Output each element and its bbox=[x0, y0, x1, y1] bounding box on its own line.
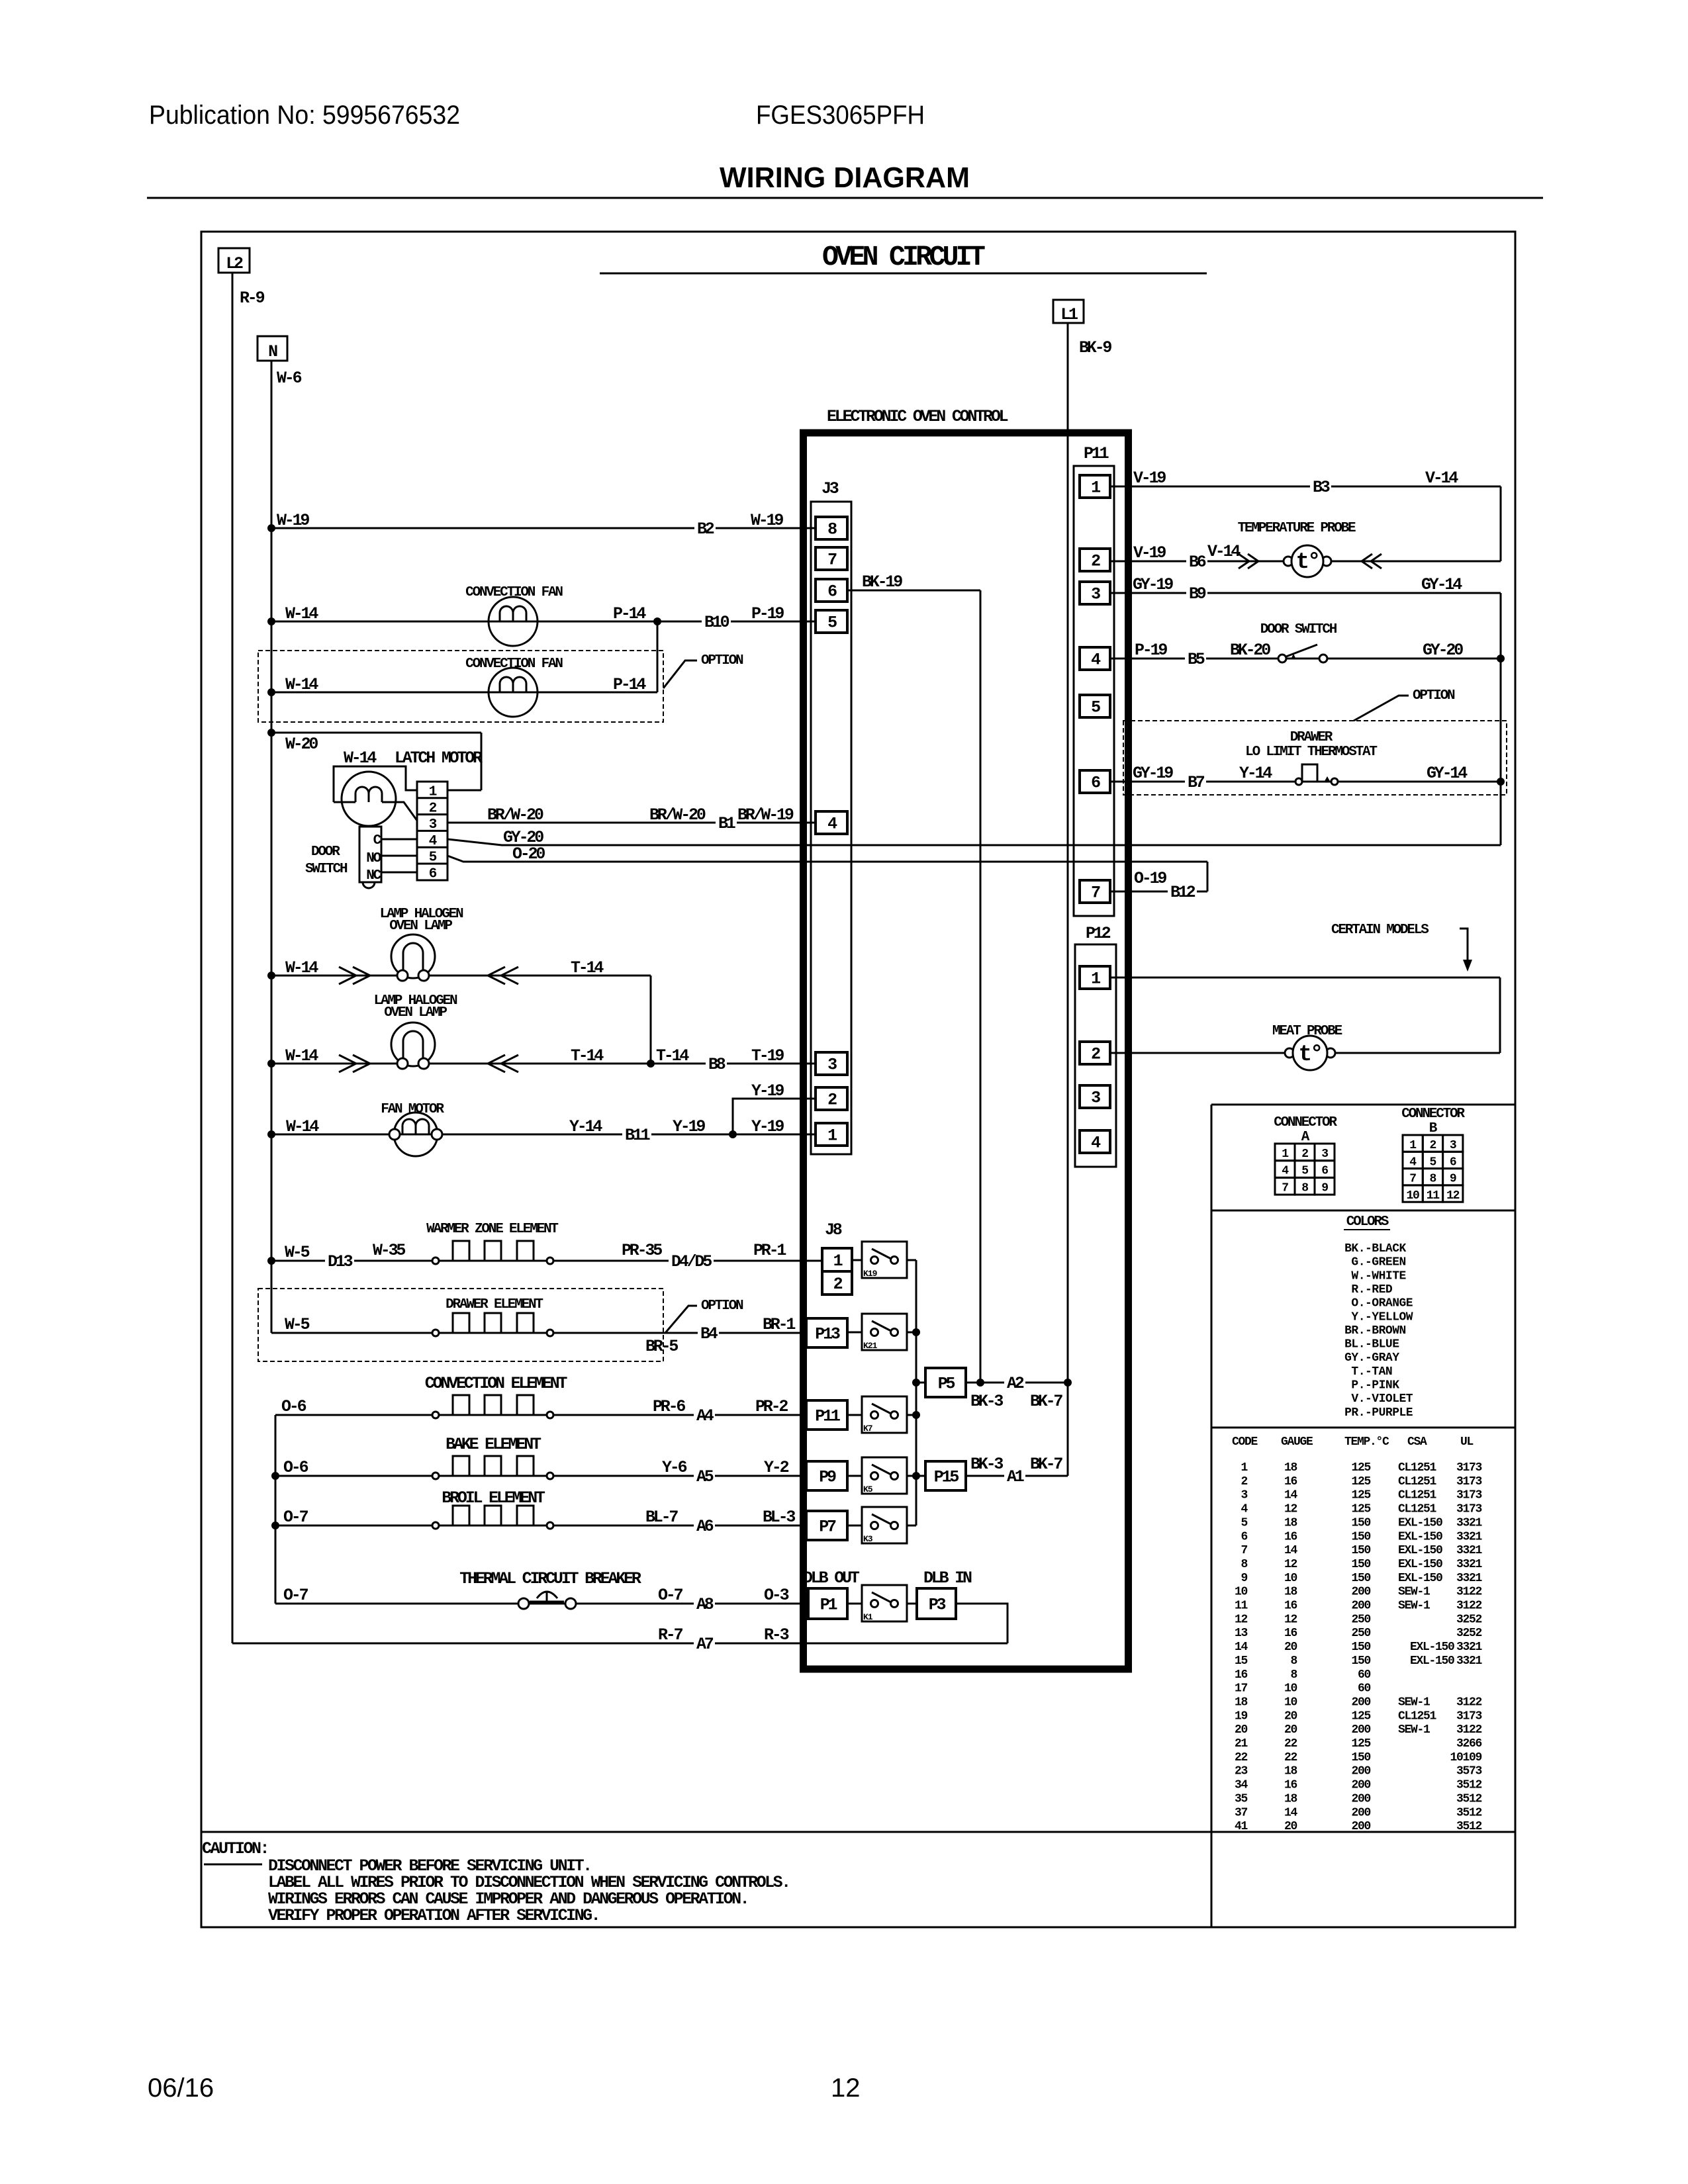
svg-text:t°: t° bbox=[1296, 550, 1319, 575]
svg-text:5: 5 bbox=[1430, 1156, 1436, 1169]
svg-text:G.: G. bbox=[1351, 1256, 1365, 1269]
svg-text:EXL-150: EXL-150 bbox=[1398, 1530, 1442, 1543]
svg-text:P7: P7 bbox=[819, 1518, 836, 1537]
oven lamp DS2 bbox=[391, 1023, 435, 1069]
wire NC to pin6 bbox=[381, 872, 417, 874]
svg-text:23: 23 bbox=[1235, 1765, 1248, 1778]
svg-text:BR/W-19: BR/W-19 bbox=[737, 805, 794, 825]
svg-text:CL1251: CL1251 bbox=[1398, 1503, 1437, 1516]
svg-text:GAUGE: GAUGE bbox=[1281, 1435, 1313, 1449]
drawer element R2 bbox=[432, 1313, 553, 1336]
svg-text:10: 10 bbox=[1406, 1189, 1419, 1203]
connector P5 bbox=[925, 1368, 966, 1397]
connector P12 pin 3 bbox=[1080, 1085, 1110, 1108]
svg-text:5: 5 bbox=[1301, 1165, 1308, 1178]
svg-text:3252: 3252 bbox=[1456, 1627, 1482, 1640]
svg-text:125: 125 bbox=[1351, 1737, 1370, 1751]
svg-text:W-19: W-19 bbox=[277, 511, 309, 530]
wire P9 to K5 bbox=[847, 1475, 862, 1477]
svg-text:D13: D13 bbox=[328, 1252, 353, 1271]
svg-text:125: 125 bbox=[1351, 1475, 1370, 1488]
svg-text:-BROWN: -BROWN bbox=[1365, 1324, 1406, 1338]
svg-text:CONVECTION FAN: CONVECTION FAN bbox=[465, 585, 563, 600]
svg-text:20: 20 bbox=[1235, 1723, 1248, 1737]
meat probe label bbox=[1272, 1024, 1342, 1039]
svg-text:DOOR: DOOR bbox=[311, 844, 340, 860]
document title WIRING DIAGRAM bbox=[720, 161, 970, 194]
svg-text:EXL-150: EXL-150 bbox=[1398, 1516, 1442, 1529]
bake element R4 bbox=[432, 1456, 553, 1479]
node junction K5 x bus bbox=[912, 1472, 920, 1480]
wire P12-1 row bbox=[1109, 978, 1500, 1053]
svg-text:200: 200 bbox=[1351, 1696, 1370, 1709]
connector chevrons probe left bbox=[1239, 554, 1258, 569]
svg-text:P3: P3 bbox=[929, 1596, 946, 1615]
svg-text:6: 6 bbox=[1450, 1156, 1456, 1169]
svg-text:1: 1 bbox=[1282, 1148, 1289, 1161]
svg-text:VERIFY PROPER OPERATION AFTER: VERIFY PROPER OPERATION AFTER SERVICING. bbox=[268, 1906, 599, 1925]
svg-text:-WHITE: -WHITE bbox=[1365, 1269, 1407, 1283]
svg-text:P-19: P-19 bbox=[1135, 641, 1167, 660]
svg-text:125: 125 bbox=[1351, 1709, 1370, 1723]
wire P13 to K21 bbox=[847, 1332, 862, 1334]
wire W-19/B2 row bbox=[271, 511, 816, 539]
title OVEN CIRCUIT bbox=[600, 241, 1207, 273]
relay K21 bbox=[862, 1314, 907, 1351]
svg-text:BR.: BR. bbox=[1344, 1324, 1365, 1338]
wire Y-19 branch to J3-2 bbox=[733, 1081, 816, 1134]
footer page 12 bbox=[831, 2073, 861, 2103]
svg-text:P15: P15 bbox=[934, 1468, 959, 1487]
node L2 bbox=[218, 248, 250, 273]
svg-text:B5: B5 bbox=[1188, 650, 1205, 669]
convection fan M1 bbox=[489, 597, 538, 646]
svg-text:10: 10 bbox=[1284, 1572, 1297, 1585]
thermal circuit breaker CB1 bbox=[518, 1591, 576, 1609]
connector P11 pin 1 bbox=[1080, 475, 1110, 498]
svg-text:3173: 3173 bbox=[1456, 1489, 1482, 1502]
svg-text:3321: 3321 bbox=[1456, 1544, 1483, 1557]
svg-text:WARMER ZONE ELEMENT: WARMER ZONE ELEMENT bbox=[426, 1222, 558, 1237]
svg-text:A1: A1 bbox=[1007, 1467, 1024, 1486]
svg-text:12: 12 bbox=[1446, 1189, 1460, 1203]
wire P11 to K7 bbox=[847, 1414, 862, 1416]
svg-text:37: 37 bbox=[1235, 1806, 1248, 1819]
svg-text:T-14: T-14 bbox=[571, 958, 604, 978]
wire W-14/P-14 option fan row bbox=[271, 621, 657, 694]
node junction L1 x A2 bbox=[1064, 1379, 1072, 1387]
svg-text:Y-19: Y-19 bbox=[751, 1117, 784, 1136]
colors legend title bbox=[1344, 1214, 1390, 1230]
door switch (latch) label bbox=[305, 844, 348, 877]
DLB IN label bbox=[923, 1569, 972, 1588]
svg-text:OVEN CIRCUIT: OVEN CIRCUIT bbox=[822, 241, 985, 273]
svg-text:-GRAY: -GRAY bbox=[1365, 1351, 1399, 1365]
svg-text:BK-9: BK-9 bbox=[1079, 338, 1111, 357]
wire P3 loop to R-3 bbox=[956, 1604, 1008, 1643]
connector J3 pin 3 bbox=[816, 1052, 847, 1075]
connector J8 label bbox=[825, 1220, 842, 1240]
svg-text:5: 5 bbox=[1241, 1516, 1247, 1529]
wire O-20 long row bbox=[447, 844, 1207, 864]
svg-text:18: 18 bbox=[1284, 1586, 1297, 1599]
wire P1 to K1 bbox=[847, 1603, 862, 1605]
svg-text:4: 4 bbox=[1241, 1503, 1248, 1516]
meat probe RT2 bbox=[1285, 1036, 1335, 1070]
svg-text:BR/W-20: BR/W-20 bbox=[487, 805, 543, 825]
svg-text:16: 16 bbox=[1284, 1530, 1297, 1543]
option dashed box (convection fan) bbox=[258, 651, 663, 722]
drawer lo limit thermostat S2 bbox=[1295, 764, 1338, 785]
svg-text:20: 20 bbox=[1284, 1723, 1297, 1737]
svg-text:18: 18 bbox=[1284, 1461, 1297, 1475]
wire O-7/BL-7/A6/BL-3 broil row bbox=[275, 1508, 806, 1536]
svg-text:7: 7 bbox=[1409, 1173, 1416, 1186]
svg-text:W-14: W-14 bbox=[344, 749, 377, 768]
svg-text:ELECTRONIC OVEN CONTROL: ELECTRONIC OVEN CONTROL bbox=[827, 407, 1008, 426]
wire N vertical W-6 bbox=[271, 361, 273, 1333]
svg-text:CONVECTION FAN: CONVECTION FAN bbox=[465, 657, 563, 672]
svg-text:B1: B1 bbox=[718, 814, 735, 833]
svg-text:K7: K7 bbox=[863, 1424, 872, 1433]
svg-text:16: 16 bbox=[1284, 1779, 1297, 1792]
svg-text:R-9: R-9 bbox=[240, 289, 265, 308]
svg-text:8: 8 bbox=[1241, 1558, 1247, 1571]
svg-text:-TAN: -TAN bbox=[1365, 1365, 1392, 1379]
wire J8-1 to K19 bbox=[852, 1259, 862, 1261]
svg-text:OPTION: OPTION bbox=[701, 653, 743, 668]
svg-text:W-14: W-14 bbox=[285, 604, 318, 623]
svg-text:CL1251: CL1251 bbox=[1398, 1489, 1437, 1502]
svg-text:V-14: V-14 bbox=[1207, 542, 1241, 561]
connector P7 bbox=[806, 1511, 847, 1540]
wire L1 vertical BK-9 bbox=[1067, 323, 1069, 1476]
DLB OUT label bbox=[803, 1569, 860, 1588]
connector P9 bbox=[806, 1461, 847, 1490]
node junction N x lamp2 bbox=[267, 1060, 275, 1068]
wire R-9 label bbox=[240, 289, 265, 308]
relay K5 bbox=[862, 1457, 907, 1494]
svg-text:W-14: W-14 bbox=[286, 1117, 319, 1136]
svg-text:V-19: V-19 bbox=[1133, 543, 1166, 563]
svg-text:EXL-150: EXL-150 bbox=[1398, 1572, 1442, 1585]
node junction N x fan motor bbox=[267, 1130, 275, 1138]
svg-text:11: 11 bbox=[1235, 1600, 1248, 1613]
svg-text:3321: 3321 bbox=[1456, 1641, 1483, 1654]
svg-text:4: 4 bbox=[1282, 1165, 1289, 1178]
svg-text:6: 6 bbox=[1241, 1530, 1247, 1543]
wire W-14 latch bracket bbox=[334, 749, 417, 802]
svg-text:20: 20 bbox=[1284, 1709, 1297, 1723]
fan motor M4 bbox=[389, 1113, 442, 1156]
connector J3 pin 4 bbox=[816, 811, 847, 834]
svg-text:A4: A4 bbox=[696, 1406, 714, 1426]
svg-text:150: 150 bbox=[1351, 1572, 1370, 1585]
svg-text:EXL-150: EXL-150 bbox=[1398, 1544, 1442, 1557]
svg-text:3266: 3266 bbox=[1456, 1737, 1482, 1751]
svg-text:BK-3: BK-3 bbox=[970, 1455, 1003, 1474]
svg-text:O-6: O-6 bbox=[283, 1458, 308, 1477]
svg-text:TEMP.°C: TEMP.°C bbox=[1344, 1435, 1389, 1449]
svg-text:3122: 3122 bbox=[1456, 1723, 1482, 1737]
svg-text:BK.: BK. bbox=[1344, 1242, 1365, 1255]
wire W-6 label bbox=[277, 369, 302, 388]
svg-text:-GREEN: -GREEN bbox=[1365, 1256, 1406, 1269]
svg-text:14: 14 bbox=[1284, 1806, 1298, 1819]
relay K19 bbox=[862, 1242, 907, 1279]
svg-text:18: 18 bbox=[1284, 1516, 1297, 1529]
certain models label bbox=[1331, 923, 1472, 972]
colors legend list bbox=[1344, 1242, 1413, 1420]
svg-text:A5: A5 bbox=[696, 1467, 714, 1486]
svg-text:A2: A2 bbox=[1007, 1374, 1024, 1393]
svg-text:SEW-1: SEW-1 bbox=[1398, 1586, 1430, 1599]
connector P13 bbox=[806, 1318, 847, 1347]
svg-text:T-19: T-19 bbox=[751, 1046, 784, 1066]
tables box frame bbox=[1211, 1105, 1515, 1832]
svg-text:BR-5: BR-5 bbox=[645, 1337, 678, 1356]
svg-text:2: 2 bbox=[1241, 1475, 1247, 1488]
svg-text:8: 8 bbox=[1430, 1173, 1436, 1186]
svg-text:B4: B4 bbox=[700, 1324, 718, 1343]
svg-text:-BLUE: -BLUE bbox=[1365, 1338, 1399, 1351]
svg-text:3122: 3122 bbox=[1456, 1696, 1482, 1709]
svg-text:3173: 3173 bbox=[1456, 1475, 1482, 1488]
connector P12 label bbox=[1086, 924, 1111, 943]
drawer lo limit thermostat label bbox=[1245, 730, 1377, 760]
connector J3 pin 6 bbox=[816, 579, 847, 602]
svg-text:14: 14 bbox=[1235, 1641, 1248, 1654]
svg-text:W-19: W-19 bbox=[751, 511, 783, 530]
svg-text:DLB OUT: DLB OUT bbox=[803, 1569, 860, 1588]
svg-text:DLB IN: DLB IN bbox=[923, 1569, 972, 1588]
wire GY-20 long row bbox=[447, 828, 1501, 847]
svg-text:CONNECTOR: CONNECTOR bbox=[1401, 1107, 1465, 1122]
connector P11 pin 5 bbox=[1080, 695, 1110, 717]
convection fan M2 (option) bbox=[489, 668, 538, 717]
door switch (latch) box bbox=[359, 827, 382, 884]
svg-text:35: 35 bbox=[1235, 1792, 1248, 1805]
svg-text:4: 4 bbox=[1409, 1156, 1417, 1169]
node L1 bbox=[1053, 300, 1084, 324]
option pointer (drawer element) bbox=[665, 1298, 743, 1333]
svg-text:3122: 3122 bbox=[1456, 1586, 1482, 1599]
svg-text:PR-1: PR-1 bbox=[753, 1241, 786, 1260]
svg-text:COLORS: COLORS bbox=[1346, 1214, 1389, 1230]
node junction Y-19 bbox=[729, 1130, 737, 1138]
svg-text:9: 9 bbox=[1321, 1181, 1328, 1195]
header rule bbox=[147, 197, 1543, 199]
svg-text:K1: K1 bbox=[863, 1612, 873, 1622]
connector P11 pin 4 bbox=[1080, 647, 1110, 670]
svg-text:-RED: -RED bbox=[1365, 1283, 1393, 1297]
svg-text:200: 200 bbox=[1351, 1779, 1370, 1792]
svg-text:B6: B6 bbox=[1189, 553, 1206, 572]
svg-text:3512: 3512 bbox=[1456, 1820, 1482, 1833]
wire W-20 to latch pin1 bbox=[271, 733, 481, 790]
svg-text:GY-19: GY-19 bbox=[1133, 764, 1173, 783]
svg-text:1: 1 bbox=[1241, 1461, 1248, 1475]
svg-text:200: 200 bbox=[1351, 1806, 1370, 1819]
svg-text:BAKE ELEMENT: BAKE ELEMENT bbox=[445, 1435, 541, 1454]
svg-text:3: 3 bbox=[1321, 1148, 1328, 1161]
svg-text:PR.: PR. bbox=[1344, 1406, 1365, 1420]
svg-text:18: 18 bbox=[1235, 1696, 1248, 1709]
svg-text:6: 6 bbox=[1321, 1165, 1328, 1178]
svg-text:P13: P13 bbox=[815, 1325, 840, 1344]
svg-text:9: 9 bbox=[1241, 1572, 1247, 1585]
connector P11 (EOC) label bbox=[1084, 444, 1109, 463]
node junction common x bake bbox=[271, 1472, 279, 1480]
wire K19 to bus bbox=[907, 1259, 916, 1261]
svg-text:CONVECTION ELEMENT: CONVECTION ELEMENT bbox=[425, 1374, 568, 1393]
caution title bbox=[202, 1839, 268, 1858]
caution box top line bbox=[201, 1831, 1515, 1833]
svg-text:D4/D5: D4/D5 bbox=[671, 1252, 712, 1271]
connector J3 pin 8 bbox=[816, 517, 847, 539]
node junction bus x P5 bbox=[912, 1379, 920, 1387]
svg-text:200: 200 bbox=[1351, 1723, 1370, 1737]
svg-text:17: 17 bbox=[1235, 1682, 1248, 1696]
svg-text:WIRING DIAGRAM: WIRING DIAGRAM bbox=[720, 161, 970, 194]
svg-text:60: 60 bbox=[1358, 1668, 1371, 1682]
svg-text:20: 20 bbox=[1284, 1820, 1297, 1833]
svg-text:UL: UL bbox=[1460, 1435, 1474, 1449]
svg-text:P12: P12 bbox=[1086, 924, 1111, 943]
svg-text:A8: A8 bbox=[696, 1595, 714, 1614]
wire O-7/A8/O-3 breaker row bbox=[275, 1586, 808, 1614]
svg-text:EXL-150: EXL-150 bbox=[1398, 1558, 1442, 1571]
svg-text:T-14: T-14 bbox=[656, 1046, 689, 1066]
svg-text:GY-19: GY-19 bbox=[1133, 575, 1173, 594]
wire bus to P5 bbox=[916, 1382, 925, 1384]
wire element common vertical bbox=[275, 1415, 277, 1604]
svg-text:9: 9 bbox=[1450, 1173, 1456, 1186]
svg-text:O-6: O-6 bbox=[281, 1397, 306, 1416]
svg-text:2: 2 bbox=[429, 801, 437, 816]
node junction N x W-14 fan bbox=[267, 617, 275, 625]
svg-text:FGES3065PFH: FGES3065PFH bbox=[756, 101, 925, 130]
svg-text:18: 18 bbox=[1284, 1792, 1297, 1805]
svg-text:10: 10 bbox=[1284, 1682, 1297, 1696]
svg-text:16: 16 bbox=[1284, 1600, 1297, 1613]
svg-text:O-19: O-19 bbox=[1134, 869, 1166, 888]
svg-text:3173: 3173 bbox=[1456, 1461, 1482, 1475]
caution line 3 bbox=[268, 1889, 748, 1909]
caution line 2 bbox=[268, 1873, 790, 1892]
door switch plunger bbox=[363, 882, 375, 888]
svg-text:200: 200 bbox=[1351, 1792, 1370, 1805]
svg-text:-YELLOW: -YELLOW bbox=[1365, 1310, 1413, 1324]
connector P1 bbox=[808, 1588, 847, 1619]
svg-text:CL1251: CL1251 bbox=[1398, 1461, 1437, 1475]
relay K1 bbox=[862, 1585, 907, 1622]
wire W-14/B10/P-19 row bbox=[271, 604, 816, 632]
wire GY-19/B7/Y-14/GY-14 thermostat row bbox=[1110, 764, 1501, 792]
svg-text:B10: B10 bbox=[704, 613, 729, 632]
svg-text:GY-14: GY-14 bbox=[1427, 764, 1468, 783]
temperature probe RT1 bbox=[1284, 545, 1331, 577]
caution line 1 bbox=[268, 1856, 591, 1876]
wire W-14/T-14 lamp1 row bbox=[271, 958, 651, 1064]
svg-text:R-7: R-7 bbox=[658, 1625, 683, 1645]
svg-text:BL-7: BL-7 bbox=[645, 1508, 678, 1527]
connector A table bbox=[1274, 1115, 1337, 1195]
svg-text:P-14: P-14 bbox=[613, 675, 646, 694]
svg-text:T-14: T-14 bbox=[571, 1046, 604, 1066]
svg-text:THERMAL CIRCUIT BREAKER: THERMAL CIRCUIT BREAKER bbox=[459, 1569, 641, 1588]
svg-text:150: 150 bbox=[1351, 1558, 1370, 1571]
svg-text:14: 14 bbox=[1284, 1489, 1298, 1502]
wire W-5/BR-5/B4/BR-1 drawer row bbox=[271, 1315, 806, 1356]
svg-text:200: 200 bbox=[1351, 1820, 1370, 1833]
svg-text:12: 12 bbox=[1284, 1613, 1297, 1626]
connector P11 pin 2 bbox=[1080, 549, 1110, 571]
svg-text:CODE: CODE bbox=[1232, 1435, 1258, 1449]
node junction B10/option bbox=[653, 617, 661, 625]
svg-text:OVEN LAMP: OVEN LAMP bbox=[384, 1005, 447, 1021]
wire BK-9 label bbox=[1079, 338, 1111, 357]
option dashed box (drawer element) bbox=[258, 1289, 663, 1361]
svg-text:W-6: W-6 bbox=[277, 369, 302, 388]
svg-text:Y-14: Y-14 bbox=[569, 1117, 602, 1136]
broil element R5 bbox=[432, 1506, 553, 1529]
svg-text:OPTION: OPTION bbox=[1413, 688, 1455, 704]
wire P15/A1 row bbox=[966, 1455, 1068, 1486]
svg-text:TEMPERATURE PROBE: TEMPERATURE PROBE bbox=[1238, 521, 1356, 536]
svg-text:20: 20 bbox=[1284, 1641, 1297, 1654]
svg-text:FAN MOTOR: FAN MOTOR bbox=[381, 1102, 444, 1117]
svg-text:W-35: W-35 bbox=[373, 1241, 405, 1260]
svg-text:K19: K19 bbox=[863, 1269, 878, 1279]
svg-text:-ORANGE: -ORANGE bbox=[1365, 1297, 1413, 1310]
svg-text:13: 13 bbox=[1235, 1627, 1248, 1640]
svg-text:P11: P11 bbox=[1084, 444, 1109, 463]
svg-text:22: 22 bbox=[1284, 1751, 1297, 1764]
svg-text:V.: V. bbox=[1351, 1392, 1365, 1406]
svg-text:K3: K3 bbox=[863, 1534, 873, 1544]
svg-text:P11: P11 bbox=[815, 1407, 840, 1426]
svg-text:1: 1 bbox=[429, 785, 437, 800]
svg-text:P-14: P-14 bbox=[613, 604, 646, 623]
svg-text:150: 150 bbox=[1351, 1516, 1370, 1529]
wire R-7/A7/R-3 row bbox=[232, 1625, 1008, 1654]
svg-text:B11: B11 bbox=[625, 1126, 650, 1145]
svg-text:O-7: O-7 bbox=[658, 1586, 683, 1605]
node junction common x broil bbox=[271, 1522, 279, 1529]
svg-text:7: 7 bbox=[1282, 1181, 1288, 1195]
svg-text:1: 1 bbox=[1409, 1139, 1417, 1152]
svg-text:34: 34 bbox=[1235, 1779, 1248, 1792]
svg-text:200: 200 bbox=[1351, 1765, 1370, 1778]
svg-text:LATCH MOTOR: LATCH MOTOR bbox=[395, 749, 483, 768]
svg-text:W-14: W-14 bbox=[285, 675, 318, 694]
connector B table bbox=[1401, 1107, 1465, 1203]
relay K7 bbox=[862, 1396, 907, 1433]
svg-text:3512: 3512 bbox=[1456, 1779, 1482, 1792]
option pointer (convection fan) bbox=[663, 653, 743, 688]
svg-text:NO: NO bbox=[366, 851, 381, 866]
svg-text:125: 125 bbox=[1351, 1503, 1370, 1516]
svg-text:5: 5 bbox=[429, 850, 437, 866]
connector J3 pin 1 bbox=[816, 1123, 847, 1146]
svg-text:B7: B7 bbox=[1188, 773, 1205, 792]
svg-text:15: 15 bbox=[1235, 1655, 1248, 1668]
svg-text:150: 150 bbox=[1351, 1655, 1370, 1668]
svg-text:T.: T. bbox=[1351, 1365, 1365, 1379]
svg-text:12: 12 bbox=[1284, 1558, 1297, 1571]
connector P11 outline bbox=[1074, 466, 1114, 916]
